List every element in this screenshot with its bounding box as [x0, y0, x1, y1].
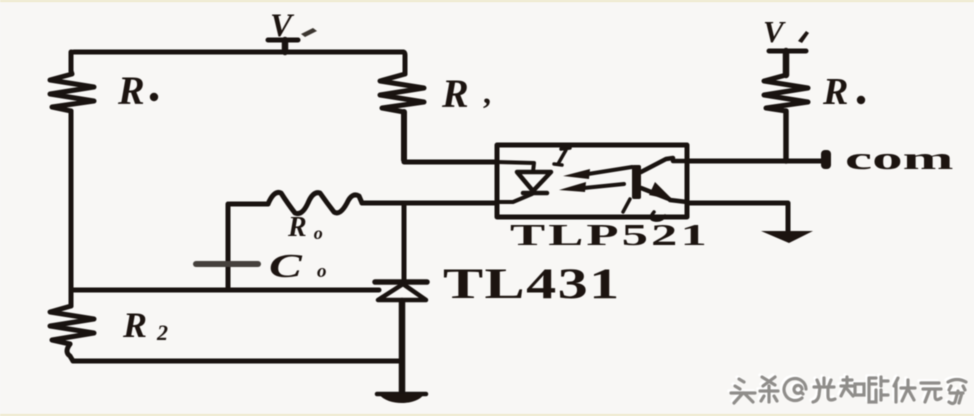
svg-text:TL431: TL431 [443, 260, 621, 308]
phototransistor Q1 collector [641, 158, 687, 172]
watermark 头条@光知能伏无穷 [729, 375, 966, 404]
wire R3 top lead [403, 52, 405, 74]
svg-text:,: , [483, 74, 491, 110]
svg-text:V: V [270, 8, 295, 44]
light arrow 1 head [563, 169, 590, 179]
wire TL431 cathode vertical [402, 204, 407, 279]
resistor R1 [50, 71, 94, 111]
V+ subscript mark [301, 28, 317, 37]
phototransistor emitter arrowhead [649, 182, 673, 200]
svg-text:R: R [822, 71, 848, 113]
resistor R0 [268, 192, 362, 213]
wire emitter to ground G2 [687, 203, 788, 231]
wire R0 left lead and C0 corner [230, 202, 268, 207]
TL431 triangle [378, 284, 426, 300]
svg-text:TLP521: TLP521 [510, 218, 710, 252]
wire left vertical middle [69, 111, 74, 306]
LED cathode bar [523, 191, 547, 196]
label TL431 [443, 260, 621, 308]
svg-text:V: V [763, 14, 786, 49]
svg-text:R: R [117, 68, 145, 113]
wire collector to com [687, 159, 821, 164]
ground G2 arrow [761, 231, 813, 243]
wire R0 right lead to optocoupler [362, 201, 497, 206]
optocoupler U1 box TLP521 [497, 145, 687, 217]
TL431 cathode bar [375, 279, 427, 285]
phototransistor base bar [632, 165, 641, 199]
com terminal tick [821, 150, 831, 169]
wire R2 bottom lead [67, 344, 73, 361]
LED D1 triangle [517, 172, 551, 191]
supply bar V+ [268, 38, 298, 43]
wire LED anode horizontal [404, 160, 497, 162]
wire TL431 anode vertical [399, 301, 406, 392]
resistor R4 [764, 75, 808, 111]
wire ref horizontal [71, 288, 379, 293]
wire R4 bottom lead [783, 111, 789, 161]
svg-text:R: R [441, 71, 469, 116]
wire top rail [71, 52, 403, 54]
LED cathode lead to pin [497, 194, 532, 202]
light arrow 2 shaft [584, 184, 624, 188]
wire V+ stem [282, 40, 289, 52]
current label Ic stroke [623, 199, 665, 220]
capacitor C0 plate [196, 261, 258, 267]
light arrow 1 shaft [588, 167, 632, 174]
ground G1 fill [379, 394, 424, 403]
wire R3 bottom lead [401, 112, 407, 160]
wire bottom rail [73, 359, 402, 364]
svg-text:o: o [317, 261, 327, 282]
label TLP521 [510, 218, 710, 252]
ground G1 bar [377, 392, 426, 397]
supply bar Vd [769, 49, 806, 54]
wire left vertical top [69, 52, 74, 71]
current label IF stroke [554, 148, 570, 165]
R4 subscript dot [857, 96, 865, 104]
resistor R2 [50, 306, 94, 344]
R1 subscript dot [150, 93, 158, 101]
label com [845, 142, 953, 176]
Vd subscript mark [798, 31, 809, 43]
svg-text:C: C [269, 247, 303, 285]
wire Vd stem [783, 51, 790, 75]
LED anode stub inside box [497, 162, 534, 172]
resistor R3 [380, 74, 424, 112]
phototransistor Q1 emitter [641, 188, 687, 202]
light arrow 2 head [559, 182, 586, 192]
label C0 [269, 247, 303, 285]
svg-text:com: com [845, 142, 953, 176]
capacitor C0 top lead [226, 204, 231, 290]
